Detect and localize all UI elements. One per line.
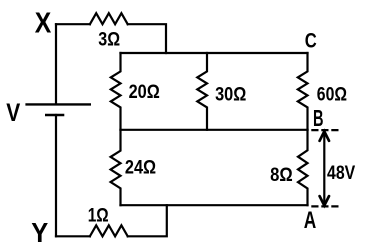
svg-text:30Ω: 30Ω bbox=[215, 84, 246, 105]
svg-text:48V: 48V bbox=[327, 163, 355, 184]
resistor R 20-ohm (vertical, left branch C to B) bbox=[111, 53, 121, 130]
wire: node C top rail bbox=[121, 52, 308, 54]
wire: battery bottom plate down to Y corner bbox=[55, 115, 57, 236]
wire: top-left corner X to 3-ohm resistor bbox=[56, 23, 90, 25]
wire: 3-ohm to vertical drop into node C rail bbox=[128, 24, 166, 53]
resistor R 60-ohm (vertical, right branch C to B) bbox=[298, 53, 308, 130]
svg-text:8Ω: 8Ω bbox=[270, 165, 293, 186]
svg-text:3Ω: 3Ω bbox=[98, 29, 120, 50]
resistor R 1-ohm (horizontal zigzag) bbox=[90, 225, 128, 236]
svg-text:60Ω: 60Ω bbox=[317, 84, 347, 105]
48V arrow head down (at A) bbox=[320, 196, 329, 205]
wire: 1-ohm to riser up to node A rail bbox=[128, 205, 167, 236]
dashed extension of node A rail bbox=[311, 205, 341, 207]
svg-text:A: A bbox=[304, 207, 317, 234]
svg-text:Y: Y bbox=[31, 217, 48, 248]
svg-text:1Ω: 1Ω bbox=[88, 206, 109, 227]
svg-text:X: X bbox=[35, 8, 52, 40]
battery V: long (positive) plate bbox=[25, 103, 91, 105]
resistor R 30-ohm (vertical, middle branch C to B) bbox=[197, 53, 207, 130]
wire: node A bottom rail bbox=[121, 204, 308, 206]
svg-text:C: C bbox=[305, 28, 317, 52]
svg-text:B: B bbox=[313, 105, 324, 131]
48V measurement arrow shaft between B and A dashed lines bbox=[323, 132, 325, 205]
svg-text:V: V bbox=[6, 99, 20, 127]
svg-text:24Ω: 24Ω bbox=[125, 158, 156, 179]
48V arrow head up (at B) bbox=[320, 131, 329, 140]
wire: node B middle rail bbox=[121, 129, 308, 131]
svg-text:20Ω: 20Ω bbox=[129, 82, 160, 103]
resistor R 3-ohm (horizontal zigzag) bbox=[90, 13, 128, 24]
wire: bottom from Y corner to 1-ohm resistor bbox=[56, 235, 90, 237]
dashed extension of node B rail bbox=[311, 129, 341, 131]
wire: left vertical from X down to battery top plate bbox=[55, 24, 57, 104]
resistor R 24-ohm (vertical, left branch B to A) bbox=[111, 130, 121, 205]
resistor R 8-ohm (vertical, right branch B to A) bbox=[298, 130, 308, 205]
battery V: short (negative) plate bbox=[45, 114, 64, 117]
